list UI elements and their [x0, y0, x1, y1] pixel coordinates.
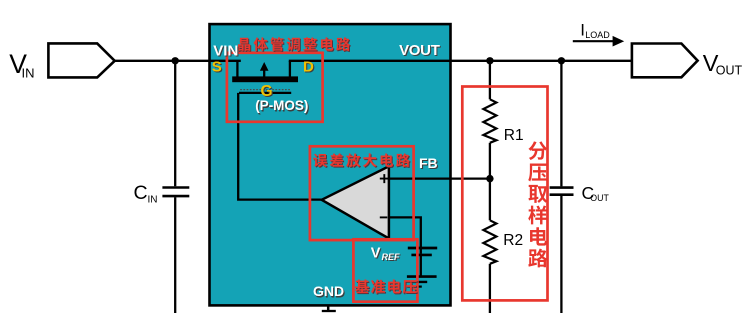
- svg-text:R1: R1: [504, 127, 524, 144]
- VOUT output terminal symbol: [632, 44, 698, 78]
- ground symbol below VREF: [407, 277, 437, 287]
- node: output junction at R1: [486, 57, 493, 64]
- label: transistor adjust circuit text: [239, 38, 351, 52]
- wire: gate of PMOS down to op-amp output: [238, 93, 322, 200]
- label: reference voltage text: [356, 280, 418, 294]
- resistor R1: [483, 99, 496, 143]
- svg-text:GND: GND: [313, 283, 344, 299]
- svg-text:R2: R2: [503, 232, 523, 249]
- wire: FB node to R2: [489, 179, 491, 221]
- wire: output node down to R1: [489, 61, 491, 100]
- resistor R2: [483, 220, 496, 263]
- op-amp U2 error amplifier: [322, 166, 389, 238]
- capacitor VREF reference: [408, 248, 437, 255]
- svg-text:IN: IN: [148, 195, 158, 206]
- wire: R2 to bottom: [489, 264, 491, 313]
- wire: VOUT rail from PMOS drain to output terminal: [289, 60, 633, 62]
- wire: FB from + input to divider node: [389, 177, 490, 179]
- transistor Q1 P-MOS pass element: [232, 61, 298, 93]
- svg-text:REF: REF: [382, 252, 401, 262]
- svg-text:VIN: VIN: [213, 42, 238, 59]
- svg-text:IN: IN: [22, 66, 35, 81]
- ILOAD current arrow: [573, 40, 614, 42]
- svg-text:S: S: [212, 59, 222, 76]
- svg-text:OUT: OUT: [590, 193, 609, 203]
- annotation box: reference voltage around VREF: [353, 239, 417, 301]
- wire: CIN to bottom: [174, 197, 176, 313]
- ground symbol GND pin: [322, 310, 336, 312]
- svg-text:D: D: [303, 59, 314, 76]
- annotation box: voltage divider around R1 R2: [462, 87, 547, 301]
- LDO regulator IC body U1: [210, 24, 451, 305]
- label: error amplifier text: [314, 154, 411, 168]
- op-amp - input marker: [380, 216, 388, 218]
- annotation box: transistor adjust circuit around PMOS: [227, 53, 323, 122]
- wire: GND pin below IC: [327, 305, 330, 310]
- svg-text:V: V: [371, 246, 381, 262]
- node: FB junction between R1 and R2: [486, 175, 493, 182]
- annotation box: error amplifier around op-amp: [310, 146, 414, 240]
- label: voltage divider sampling circuit text: [528, 141, 547, 267]
- op-amp + input marker: [380, 174, 389, 183]
- VIN input terminal symbol: [48, 43, 114, 77]
- wire: output node down to COUT: [560, 61, 562, 187]
- wire: VREF cap to ground: [420, 255, 422, 276]
- capacitor CIN: [162, 188, 189, 197]
- wire: - input to VREF: [389, 217, 421, 247]
- svg-text:G: G: [261, 83, 273, 100]
- svg-text:C: C: [134, 182, 148, 204]
- svg-text:OUT: OUT: [716, 63, 743, 77]
- wire: input node down to CIN: [174, 61, 176, 186]
- node: input junction at CIN: [172, 57, 179, 64]
- svg-text:FB: FB: [419, 155, 438, 171]
- wire: VIN rail from input terminal to PMOS source: [114, 60, 241, 62]
- capacitor COUT: [550, 188, 574, 195]
- wire: COUT to bottom: [560, 196, 562, 313]
- wire: R1 to FB node: [489, 143, 491, 179]
- svg-text:LOAD: LOAD: [585, 30, 610, 40]
- node: output junction at COUT: [558, 57, 565, 64]
- svg-text:VOUT: VOUT: [399, 42, 440, 59]
